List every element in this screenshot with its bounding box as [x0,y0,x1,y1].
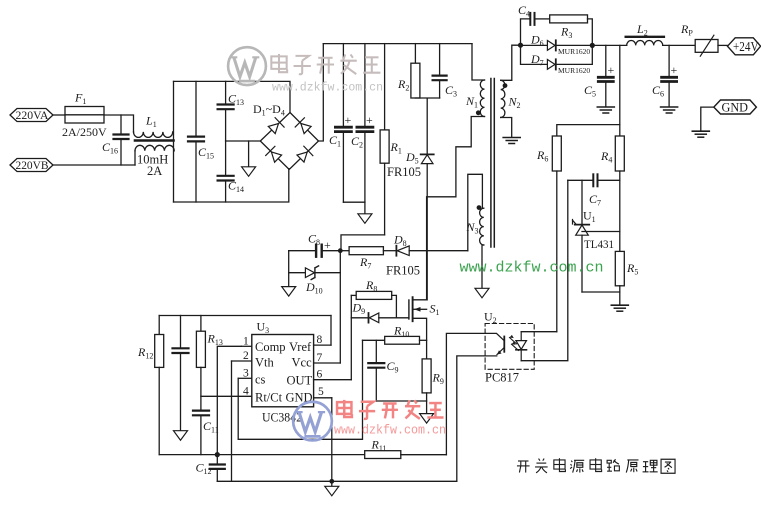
svg-text:Vcc: Vcc [292,356,313,370]
pin 4 Rt/Ct [201,386,252,398]
wire N2 top to rectifier node [501,45,521,80]
watermark top: W logo [228,47,266,85]
ground below C10 [174,431,188,441]
ground below pin 5 [331,481,333,486]
resistor R13 [196,316,205,410]
svg-text:C9: C9 [387,359,399,375]
svg-text:C3: C3 [445,83,457,99]
svg-text:R13: R13 [207,332,223,348]
ground below N2 [503,138,520,144]
ground below GND terminal [692,131,709,137]
svg-text:6: 6 [317,369,323,381]
svg-text:C8: C8 [308,232,320,248]
svg-text:C16: C16 [102,140,118,156]
diode D1 (top-left edge) [268,118,284,134]
watermark top: brand characters [271,54,380,74]
wire D8 to N3 top [468,174,483,250]
wire C13/C14 midpoint to bridge left corner [226,140,261,142]
wire GND terminal to ground [701,107,714,130]
svg-text:C13: C13 [228,92,244,108]
node 220VB input terminal [10,159,53,172]
wire pin 2 to ground bus [231,361,233,481]
svg-text:OUT: OUT [287,374,313,388]
capacitor C16 [114,115,129,165]
svg-text:U3: U3 [257,320,270,336]
svg-text:FR105: FR105 [387,165,421,179]
diode D6 MUR1620 [521,40,593,50]
svg-text:R5: R5 [626,261,638,277]
svg-text:D6: D6 [530,33,544,49]
svg-text:R11: R11 [371,438,387,454]
capacitor C6 electrolytic [662,45,677,106]
svg-text:D5: D5 [405,150,419,166]
svg-text:+: + [671,63,678,77]
svg-text:+: + [324,238,331,252]
svg-text:R3: R3 [560,25,572,41]
resistor R9 [422,359,431,414]
node output rail junction [590,43,595,48]
wire TL431 ref to R4 R5 junction [582,231,620,233]
resistor R3 [550,15,593,46]
wire Vref bus [159,315,331,317]
wire Vcc node down to pin 7 [339,251,341,363]
svg-text:L2: L2 [636,22,648,38]
wire R6 top to R4 line [557,125,620,136]
wire HV top bus [323,43,472,45]
wire C9 bottom to R9 bottom [376,400,426,402]
svg-text:GND: GND [722,100,749,115]
wire bridge right corner up to HV bus [319,44,324,141]
wire pin 3 cs sense loop [238,340,362,439]
diode D5 FR105 [421,154,434,163]
svg-text:MUR1620: MUR1620 [558,47,590,56]
ground below N3 [475,288,489,298]
svg-text:+24V: +24V [733,40,759,55]
svg-text:C12: C12 [196,461,212,477]
watermark center: W logo [293,402,332,441]
wire comp bus [159,454,365,456]
svg-text:Rt/Ct: Rt/Ct [255,391,283,405]
pin 2 Vth [232,350,252,362]
resistor R5 [615,251,624,304]
resistor R11 [365,451,447,459]
svg-text:8: 8 [317,334,323,346]
op-amp U3 UC3842 box [252,335,314,407]
svg-text:+: + [366,113,373,127]
pin 5 GND [314,386,332,398]
transformer winding N2 [501,80,505,117]
wire pin 8 to Vref bus [330,316,332,346]
wire output node down to R4 [619,45,621,136]
svg-text:L1: L1 [145,114,157,130]
svg-text:www.dzkfw.com.cn: www.dzkfw.com.cn [334,424,446,438]
svg-text:R9: R9 [432,371,444,387]
wire L2 to Rp [663,44,696,46]
capacitor C9 [368,340,384,401]
svg-text:3: 3 [243,368,249,380]
svg-text:D1~D4: D1~D4 [253,102,285,118]
svg-text:C7: C7 [589,192,601,208]
diode D10 zener [289,266,341,280]
svg-text:U2: U2 [484,310,497,326]
pin 8 Vref [314,334,331,346]
wire D5 to drain vertical [426,164,428,300]
capacitor C10 (Vref bypass) [173,316,189,431]
resistor R8 [351,291,396,317]
title: switching power supply schematic caption [517,458,675,473]
svg-text:220VB: 220VB [16,160,49,172]
resistor R7 [340,247,396,255]
wire R1 bottom jog to Vcc node [341,235,385,251]
wire bottom sub-bus to bridge bottom [174,169,289,202]
svg-text:PC817: PC817 [485,371,519,385]
wire opto LED anode to R6 [521,331,557,333]
node rectifier input junction [518,43,523,48]
pin 1 Comp [241,336,252,348]
resistor R2 [411,44,420,98]
svg-text:4: 4 [243,386,249,398]
wire N1 bottom jog to drain [427,117,484,197]
svg-text:7: 7 [317,352,323,364]
inductor L1 common-mode choke [134,132,175,165]
resistor R4 [615,136,624,251]
svg-text:www.dzkfw.com.cn: www.dzkfw.com.cn [272,81,383,95]
svg-text:C11: C11 [203,419,219,435]
svg-text:U1: U1 [583,209,596,225]
wire fuse to L1 [104,115,134,132]
svg-text:MUR1620: MUR1620 [558,66,590,75]
node Vcc junction [338,248,343,253]
capacitor C15 [188,81,204,202]
node GND output terminal [714,100,757,114]
svg-text:Vth: Vth [255,356,275,370]
diode D7 MUR1620 [521,45,593,69]
watermark center: brand characters [337,400,444,419]
inductor L2 [626,37,664,46]
wire 220VB line [53,164,135,166]
bridge rectifier D1~D4 diamond [260,113,318,170]
svg-text:C2: C2 [351,134,363,150]
opto LED [516,332,527,361]
wire pin 5 GND down [331,398,333,482]
svg-text:N3: N3 [466,220,479,236]
node comp bus junction [215,452,220,457]
diode D3 (bottom-left edge) [266,146,282,162]
svg-text:D9: D9 [352,301,366,317]
capacitor C12 [210,455,225,482]
svg-text:R12: R12 [137,345,153,361]
wire pin 6 OUT up to R8/D9 [350,295,352,379]
diode D8 FR105 [396,246,467,256]
wire opto LED cathode to TL431 node [521,180,568,360]
svg-text:R10: R10 [393,324,409,340]
capacitor C1 electrolytic [335,44,351,203]
opto light arrows [510,335,519,351]
transformer winding N1 [480,80,484,116]
svg-text:2: 2 [243,350,249,362]
resistor R10 [363,336,427,344]
transformer winding N3 [480,208,484,245]
node 220VA input terminal [10,109,53,122]
pin 3 cs [238,368,252,380]
svg-text:N1: N1 [465,94,478,110]
svg-text:R8: R8 [365,278,377,294]
optocoupler U2 PC817 dashed box [485,324,534,370]
svg-text:Comp: Comp [255,340,286,354]
svg-text:R7: R7 [359,255,371,271]
ground below R5 [611,305,628,311]
svg-text:1: 1 [243,336,249,348]
node +24V output terminal [728,38,761,55]
svg-text:2A: 2A [147,164,162,178]
ground below R9 [420,414,434,424]
wire clamp bottom R2 C3 to D5 [415,98,439,154]
diode D9 [351,313,409,323]
wire C1 C2 bottoms joined [343,201,365,203]
svg-text:D10: D10 [305,280,323,296]
svg-text:C1: C1 [329,133,341,149]
wire pin 1 to comp bus [217,346,241,454]
pin 6 OUT [314,369,352,381]
resistor Rp fusible [695,35,727,56]
resistor R12 [155,316,164,455]
capacitor C7 [568,174,620,186]
transformer core [491,79,494,248]
wire opto collector to R11 [446,333,485,454]
svg-text:R2: R2 [397,77,409,93]
capacitor C2 electrolytic [357,44,373,203]
ground below C1 C2 [364,202,366,214]
wire filter left vertical [173,81,175,202]
svg-text:N2: N2 [508,95,521,111]
ground below C8/D10 [282,287,296,297]
capacitor C5 electrolytic [598,45,613,106]
svg-text:R6: R6 [536,148,548,164]
diode D2 (top-right edge) [295,118,311,134]
wire N3 bottom to ground [482,245,484,288]
fuse F1 [65,107,104,124]
svg-text:F1: F1 [74,91,86,107]
ground at bridge left [248,141,250,167]
wire N1 top to HV bus [472,44,485,80]
svg-text:C5: C5 [584,83,596,99]
svg-text:S1: S1 [430,302,440,318]
svg-text:R1: R1 [390,140,402,156]
svg-text:Vref: Vref [289,340,312,354]
svg-text:R4: R4 [600,149,612,165]
opto phototransistor [485,333,504,356]
svg-text:5: 5 [318,386,324,398]
svg-text:D8: D8 [393,233,407,249]
capacitor C11 [193,411,209,455]
svg-text:+: + [345,113,352,127]
svg-text:TL431: TL431 [584,237,614,251]
ground below C6 [661,107,678,113]
diode D4 (bottom-right edge) [297,146,313,162]
svg-text:C14: C14 [228,179,244,195]
wire opto emitter to ground bus [457,356,485,481]
wire N2 bottom to ground [501,118,512,137]
shunt regulator U1 TL431 [573,180,590,292]
svg-text:C6: C6 [652,83,664,99]
wire TL431 anode to R5 bottom [582,291,620,293]
svg-text:D7: D7 [530,52,544,68]
wire C8 left to ground [288,251,290,287]
svg-text:RP: RP [680,22,693,38]
wire output rail to L2 [592,44,626,46]
node GND junction [329,479,334,484]
capacitor C3 [433,44,447,98]
svg-text:+: + [608,63,615,77]
capacitor C14 [218,141,234,202]
pin 7 Vcc [314,352,341,364]
capacitor C13 [218,81,234,141]
svg-text:FR105: FR105 [386,264,420,278]
svg-text:2A/250V: 2A/250V [62,125,107,139]
svg-text:www.dzkfw.com.cn: www.dzkfw.com.cn [460,260,604,277]
wire ground bus2 [217,480,456,482]
wire 220VA to fuse [53,114,65,116]
svg-text:C4: C4 [518,3,530,19]
svg-text:C15: C15 [198,145,214,161]
resistor R1 [380,44,389,235]
resistor R6 [552,136,561,332]
ground below C5 [597,107,614,113]
svg-text:220VA: 220VA [16,110,50,122]
transistor S1 MOSFET [409,197,427,359]
capacitor C8 electrolytic [289,245,341,257]
wire top sub-bus to bridge top [174,81,291,112]
svg-text:cs: cs [255,373,266,387]
capacitor C4 [521,13,550,45]
